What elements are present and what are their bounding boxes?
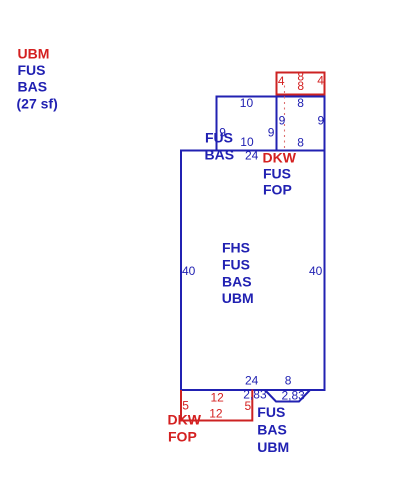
svg-text:FUS: FUS bbox=[18, 62, 46, 78]
svg-text:DKW: DKW bbox=[168, 412, 202, 428]
svg-text:10: 10 bbox=[240, 135, 254, 149]
svg-text:24: 24 bbox=[245, 374, 259, 388]
svg-text:12: 12 bbox=[209, 407, 223, 421]
svg-text:9: 9 bbox=[219, 125, 226, 139]
svg-text:FOP: FOP bbox=[168, 428, 197, 444]
svg-text:FUS: FUS bbox=[263, 166, 291, 182]
svg-text:9: 9 bbox=[279, 113, 286, 127]
svg-text:8: 8 bbox=[297, 135, 304, 149]
svg-text:10: 10 bbox=[240, 96, 254, 110]
svg-text:BAS: BAS bbox=[257, 422, 287, 438]
svg-text:UBM: UBM bbox=[222, 290, 254, 306]
svg-text:FUS: FUS bbox=[257, 404, 285, 420]
svg-text:9: 9 bbox=[268, 125, 275, 139]
svg-text:FUS: FUS bbox=[222, 257, 250, 273]
svg-text:UBM: UBM bbox=[18, 46, 50, 62]
svg-text:2,83: 2,83 bbox=[282, 389, 306, 403]
svg-text:8: 8 bbox=[297, 79, 304, 93]
svg-text:UBM: UBM bbox=[257, 439, 289, 455]
svg-text:FOP: FOP bbox=[263, 182, 292, 198]
svg-text:DKW: DKW bbox=[263, 150, 297, 166]
svg-text:8: 8 bbox=[297, 96, 304, 110]
svg-text:12: 12 bbox=[211, 391, 225, 405]
svg-text:BAS: BAS bbox=[18, 79, 48, 95]
svg-text:40: 40 bbox=[182, 264, 196, 278]
svg-text:FHS: FHS bbox=[222, 240, 250, 256]
svg-text:4: 4 bbox=[317, 74, 324, 88]
svg-text:5: 5 bbox=[245, 399, 252, 413]
svg-text:8: 8 bbox=[285, 374, 292, 388]
svg-text:40: 40 bbox=[309, 264, 323, 278]
svg-text:9: 9 bbox=[318, 113, 325, 127]
svg-text:24: 24 bbox=[245, 149, 259, 163]
svg-text:(27 sf): (27 sf) bbox=[17, 96, 58, 112]
svg-text:BAS: BAS bbox=[222, 273, 252, 289]
svg-text:5: 5 bbox=[182, 399, 189, 413]
svg-text:4: 4 bbox=[278, 74, 285, 88]
svg-text:BAS: BAS bbox=[205, 147, 235, 163]
